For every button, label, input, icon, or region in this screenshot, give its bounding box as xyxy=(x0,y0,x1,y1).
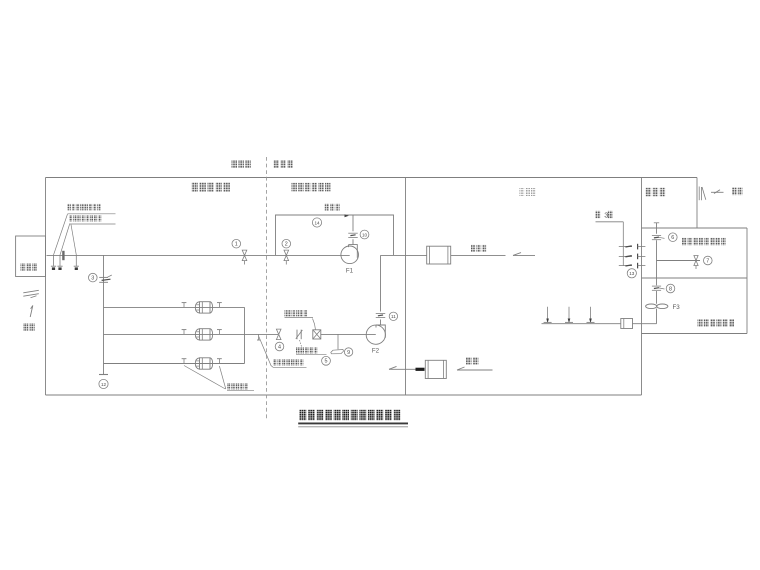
valve tap row1 right xyxy=(218,303,220,308)
node sampling tap 2 xyxy=(59,255,61,266)
node diffusion chamber right box xyxy=(696,178,698,229)
node inline sampling instrument xyxy=(62,251,64,260)
node blast valve (left, intake) xyxy=(23,290,39,293)
valve 4 (airtight valve) xyxy=(276,329,281,340)
node circled 2 xyxy=(282,239,291,248)
svg-text:10: 10 xyxy=(362,232,368,237)
wire F2 outlet riser xyxy=(380,255,382,311)
svg-text:11: 11 xyxy=(391,314,396,319)
filter absorber unit 1 xyxy=(200,302,211,313)
node sampling tap 1 xyxy=(53,255,55,266)
valve tap row3 right xyxy=(218,359,220,364)
label return air 回风 xyxy=(466,357,478,365)
svg-text:8: 8 xyxy=(669,286,672,292)
label diffusion chamber 扩散室 (right) xyxy=(646,188,666,197)
wire leader to tap3 xyxy=(71,225,76,256)
node circled 7 xyxy=(704,256,713,265)
svg-text:4: 4 xyxy=(278,344,281,350)
wire exhaust riser pipe xyxy=(656,223,658,234)
wire return line to sleeve xyxy=(406,368,416,370)
node exhaust drop arrow 3 xyxy=(590,307,592,319)
node exhaust-gas sampling tap xyxy=(258,334,260,339)
wire leader pressure-measure right xyxy=(219,366,225,389)
valve 11 (gate on F2 outlet) xyxy=(376,312,386,314)
svg-text:2: 2 xyxy=(285,242,288,248)
valve tap row1 left xyxy=(183,303,185,308)
wire supply line to label xyxy=(451,254,506,256)
filter absorber unit 3 xyxy=(200,358,211,369)
label pressure measuring pipe 压差测量管 xyxy=(227,383,248,390)
node circled 5 xyxy=(322,356,331,365)
node exhaust drop arrow 1 xyxy=(547,307,549,319)
node circled 11 xyxy=(389,312,397,320)
svg-text:1: 1 xyxy=(235,242,238,248)
node exhaust drop arrow 2 xyxy=(568,307,570,319)
valve 8 (gate) xyxy=(652,285,661,287)
label clean zone 清洁区 xyxy=(274,160,293,168)
wire riser bottom to exhaust line xyxy=(656,309,658,324)
label volume control valve 风量调节阀 xyxy=(296,347,317,354)
valve wall-sleeve pair row 2 xyxy=(619,255,632,257)
svg-text:12: 12 xyxy=(101,382,107,387)
wire middle line to fan F2 xyxy=(321,333,376,335)
meter air volume measuring box xyxy=(313,330,321,339)
node flow arrow on loop xyxy=(345,214,349,217)
wire leader to tap2 xyxy=(60,225,70,256)
silencer (supply) xyxy=(427,246,451,264)
filter absorber unit 2 xyxy=(200,329,211,340)
svg-text:F2: F2 xyxy=(372,348,380,355)
wire leader exhaust sampling xyxy=(259,337,273,368)
node blast valve (exhaust outlet) xyxy=(698,187,700,201)
node intake flow arrow xyxy=(30,306,33,318)
label air volume measuring device 风量测量装置 xyxy=(285,310,308,316)
node return flow arrow (into room) xyxy=(389,368,406,370)
valve wall-sleeve pair row 3 xyxy=(619,265,632,267)
valve tap row2 left xyxy=(183,330,185,335)
wire main intake line xyxy=(47,254,350,256)
svg-text:F1: F1 xyxy=(346,268,354,275)
svg-text:3: 3 xyxy=(91,275,94,281)
node circled 1 xyxy=(232,239,241,248)
label dust filter room 除尘滤毒室 xyxy=(192,183,230,192)
wire leader measuring box xyxy=(313,319,316,330)
label exhaust gas sampling pipe 尾气监测取样管 xyxy=(273,359,303,366)
wire outer top border xyxy=(46,177,698,179)
label exhaust 排风 xyxy=(732,188,742,196)
wire filter branch row 3 xyxy=(104,363,245,365)
node circled 3 xyxy=(89,273,98,282)
node circled 13 xyxy=(627,269,636,278)
wire filter manifold riser xyxy=(103,255,105,374)
node overpressure exhaust valve box xyxy=(621,319,633,329)
meter pressure measuring device 9 xyxy=(331,350,344,354)
valve 6 (gate, exhaust riser) xyxy=(652,235,661,237)
valve 10 (gate on F1 outlet) xyxy=(348,232,358,234)
node circled 6 xyxy=(669,233,678,242)
wire leader to valve group xyxy=(622,222,624,266)
wire exhaust collection line xyxy=(542,323,621,325)
wire zone divider (dashed) xyxy=(266,157,268,420)
label wartime exhaust fan room 战时排风机房 xyxy=(698,319,735,327)
svg-text:9: 9 xyxy=(347,350,350,356)
label air intake 进风 xyxy=(23,323,35,331)
node flow arrow supply xyxy=(513,254,535,256)
wire supply line through wall xyxy=(381,254,427,256)
svg-text:7: 7 xyxy=(706,258,709,264)
silencer (return) xyxy=(425,360,446,378)
valve 2 (airtight valve) xyxy=(284,250,289,261)
node return label arrow xyxy=(457,369,493,371)
wire drop to pressure device 9 xyxy=(337,334,339,349)
node exhaust fan room box xyxy=(642,333,748,335)
label title 战时人防通风系统流程控制图 xyxy=(300,410,401,421)
node circled 4 xyxy=(275,342,284,351)
node thick wall sleeve xyxy=(416,368,425,371)
wire tee to valve 7 xyxy=(657,260,701,262)
valve 7 (airtight valve) xyxy=(694,256,698,266)
node circled 8 xyxy=(666,284,675,293)
valve 5 (volume control damper) xyxy=(296,330,298,340)
fan F1 (centrifugal) xyxy=(341,246,359,264)
label wartime intake fan room 战时进风机房 xyxy=(292,183,331,192)
label gas-proof passage & washing room 防毒通道暨洗消间 xyxy=(682,238,726,246)
node circled 14 xyxy=(312,218,321,227)
wire bottom border xyxy=(46,394,642,396)
valve 1 (airtight valve) xyxy=(242,250,247,261)
label radioactivity sampling pipe 放射性监测取样管 xyxy=(68,204,101,211)
wire branch right connector xyxy=(244,307,246,363)
node exhaust flow arrow xyxy=(711,191,724,193)
wire leader to tap1 xyxy=(54,214,68,255)
wire pressurization pipe loop 增压管 xyxy=(276,215,394,255)
label pressurization pipe 增压管 xyxy=(325,204,340,211)
fan F2 (centrifugal) xyxy=(366,325,385,344)
svg-text:6: 6 xyxy=(671,235,674,241)
node circled 9 xyxy=(344,348,352,356)
wire leader pressure-measure left xyxy=(184,366,225,390)
wire internal wall (fan room / clean area) xyxy=(405,178,407,396)
valve 3 (gate valve) xyxy=(99,276,108,278)
svg-text:13: 13 xyxy=(629,271,635,276)
svg-text:14: 14 xyxy=(314,220,320,225)
node left diffusion chamber box xyxy=(16,236,46,277)
valve tap row3 left xyxy=(183,359,185,364)
node circled 12 xyxy=(99,379,108,388)
node sampling tap 3 xyxy=(75,255,77,266)
label 3 pieces total 共3只 xyxy=(596,211,601,219)
svg-text:F3: F3 xyxy=(673,304,681,311)
valve wall-sleeve pair row 1 xyxy=(619,246,632,248)
label diffusion chamber 扩散室 (left) xyxy=(21,263,38,271)
wire filter branch row 1 xyxy=(104,306,245,308)
label contaminated zone 染毒区 xyxy=(232,160,251,168)
wire filter branch row 2 xyxy=(104,333,279,335)
node gas-proof passage room box xyxy=(746,228,748,334)
wire right wall xyxy=(641,178,643,396)
wire left border xyxy=(45,178,47,396)
valve tap row2 right xyxy=(218,330,220,335)
fan F3 (axial) xyxy=(646,304,657,309)
node capped pipe end xyxy=(99,374,108,376)
label clean area 清洁区 (main room) xyxy=(520,188,536,196)
label pressure measuring pipe 染毒区压差测量管 xyxy=(69,215,101,222)
wire F1 outlet to loop xyxy=(352,215,354,231)
label supply duct 送风管 xyxy=(471,245,486,252)
svg-text:5: 5 xyxy=(325,359,328,365)
node circled 10 xyxy=(360,230,369,239)
